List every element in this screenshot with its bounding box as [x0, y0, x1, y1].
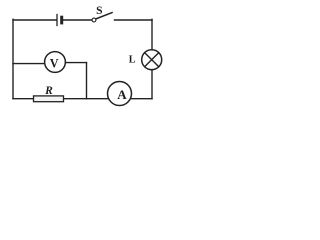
resistor R — [34, 96, 64, 102]
svg-text:A: A — [117, 87, 127, 102]
wire: voltmeter branch down — [86, 63, 88, 99]
wire: bottom left segment — [13, 98, 33, 100]
svg-text:R: R — [44, 85, 53, 97]
svg-text:L: L — [129, 54, 136, 65]
svg-text:S: S — [96, 5, 102, 17]
wire: battery to switch — [63, 19, 92, 21]
wire: bottom middle segment — [64, 98, 109, 100]
wire: voltmeter branch left — [13, 63, 45, 65]
ammeter A — [108, 82, 132, 106]
svg-text:V: V — [50, 57, 59, 71]
wire: right rail upper — [151, 19, 153, 50]
lamp L — [142, 50, 162, 70]
switch S — [92, 13, 112, 22]
wire: left rail — [12, 19, 14, 98]
battery (cell) — [57, 15, 62, 26]
wire: right rail lower — [151, 70, 153, 99]
wire: voltmeter branch right — [66, 62, 87, 64]
wire: bottom right segment — [131, 98, 152, 100]
wire: switch to top-right corner — [115, 19, 153, 21]
wire: top left segment — [13, 19, 56, 21]
voltmeter V — [45, 52, 66, 73]
